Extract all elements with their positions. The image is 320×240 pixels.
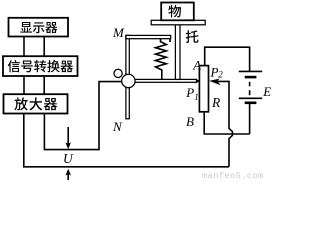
- svg-text:B: B: [186, 114, 194, 129]
- svg-text:P: P: [210, 65, 219, 80]
- svg-text:manfen5.com: manfen5.com: [202, 171, 264, 180]
- svg-text:1: 1: [194, 92, 199, 102]
- svg-text:U: U: [63, 151, 74, 166]
- svg-text:E: E: [262, 84, 271, 99]
- svg-text:P: P: [185, 85, 194, 100]
- svg-text:A: A: [192, 57, 201, 72]
- svg-text:M: M: [112, 25, 125, 40]
- svg-text:R: R: [211, 95, 221, 110]
- svg-text:N: N: [112, 119, 123, 134]
- svg-text:2: 2: [218, 70, 223, 80]
